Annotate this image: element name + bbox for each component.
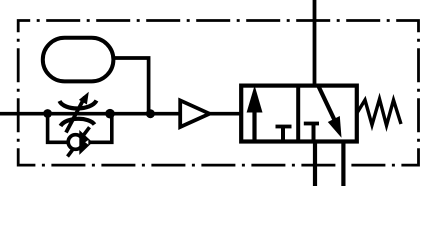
reservoir (air accumulator) (43, 38, 114, 82)
wire (supply port, bottom left) (313, 142, 317, 187)
check valve C1 (bypass: ball and seat) (68, 127, 93, 156)
junction (left of throttle) (43, 109, 52, 118)
wire (signal output port, top) (313, 0, 317, 86)
wire (exhaust port, bottom right) (341, 142, 345, 187)
junction (right of throttle) (105, 109, 115, 119)
bypass wire (around throttle) (48, 114, 112, 143)
return spring (357, 99, 401, 126)
check valve (main line, open triangle) (180, 100, 209, 127)
valve V1 left position: blocked port T (276, 127, 292, 141)
valve V1 right position: blocked port T (304, 124, 319, 141)
flow control valve (adjustable throttle) (60, 92, 97, 133)
wire (triangle to valve pilot port) (207, 112, 241, 116)
valve V1 left position: flow path arrow (247, 85, 263, 139)
node (junction: reservoir / main line) (146, 109, 155, 118)
enclosure (dash-dot assembly boundary) (18, 21, 418, 166)
valve V1 right position: exhaust arrow (318, 86, 341, 138)
main wire (supply input line, left) (0, 112, 181, 116)
valve V1 (3/2-way directional valve body) (241, 86, 357, 142)
wire (reservoir to node) (112, 58, 149, 114)
